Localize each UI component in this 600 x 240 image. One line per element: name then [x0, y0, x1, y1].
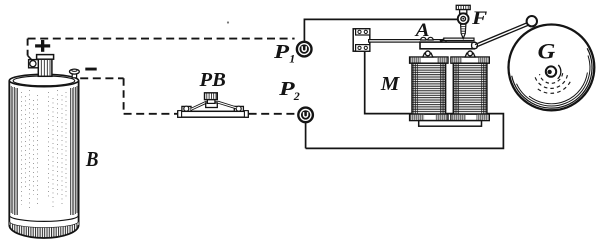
gong shading dashed arcs	[535, 73, 570, 93]
left coil winding body	[412, 63, 446, 114]
wire: positive dashed lead from + terminal to P1	[28, 39, 295, 61]
left coil bottom flange	[410, 114, 448, 120]
svg-text:M: M	[380, 73, 401, 95]
right coil winding body	[453, 63, 487, 114]
armature iron bar	[420, 42, 475, 49]
wire: P1 up and over to contact screw F	[304, 19, 459, 41]
electromagnet M: right coil top flange	[451, 57, 489, 63]
push button PB	[178, 106, 248, 117]
contact screw F	[456, 5, 470, 38]
binding post P2	[298, 108, 313, 123]
right coil bottom flange	[451, 114, 489, 120]
battery carbon post (+ terminal)	[29, 55, 54, 77]
svg-text:1: 1	[289, 51, 295, 65]
wire: dashed lead from push button to P2	[249, 113, 298, 115]
hammer ball	[527, 16, 537, 26]
armature pivot bracket	[353, 29, 370, 51]
battery B (dry cell body)	[9, 74, 78, 238]
svg-text:P: P	[273, 41, 290, 63]
minus sign label	[85, 68, 96, 71]
right coil core bump	[465, 51, 475, 57]
svg-text:B: B	[85, 147, 98, 171]
svg-text:A: A	[415, 20, 430, 41]
electromagnet M: left coil top flange	[410, 57, 448, 63]
gong hub	[546, 65, 561, 79]
hammer arm	[475, 23, 528, 47]
binding post P1	[297, 42, 312, 57]
svg-text:2: 2	[293, 89, 300, 103]
svg-text:F: F	[471, 8, 488, 29]
armature contact strip (upper leaf)	[440, 38, 474, 41]
armature screw bumps	[421, 37, 426, 40]
battery zinc knob (- terminal)	[70, 69, 80, 78]
gong rim arcs	[512, 48, 592, 108]
svg-text:PB: PB	[198, 70, 225, 91]
battery body shading lines	[11, 86, 77, 215]
gong G	[509, 25, 595, 111]
stray printing speck	[227, 21, 229, 23]
wire: P2 down to bottom run	[305, 122, 307, 148]
left coil core bump	[423, 51, 433, 57]
wire: negative dashed lead from - terminal to push button	[80, 78, 177, 114]
svg-text:G: G	[538, 38, 556, 63]
coil base bracket	[419, 121, 482, 127]
push button spring strip	[191, 102, 237, 109]
push button contact block and knurled knob	[205, 93, 218, 108]
armature A: flat spring	[369, 40, 446, 43]
wire: bottom run and frame of magnet circuit	[306, 51, 504, 148]
plus sign label	[35, 40, 50, 52]
